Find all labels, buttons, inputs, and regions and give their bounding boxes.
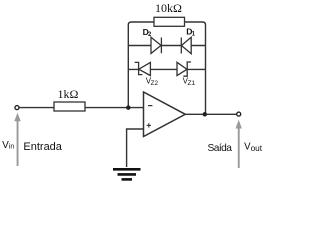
- svg-text:D1: D1: [186, 27, 195, 38]
- wire feedback loop left/top/right: [128, 22, 205, 114]
- svg-text:VZ2: VZ2: [146, 76, 159, 87]
- wire op-amp output: [185, 113, 237, 115]
- svg-text:10kΩ: 10kΩ: [155, 1, 182, 15]
- zener diode VZ1: [177, 62, 191, 76]
- svg-text:Saída: Saída: [208, 143, 233, 154]
- svg-text:Vout: Vout: [244, 141, 263, 153]
- wire zener row: [128, 68, 205, 70]
- input terminal: [15, 106, 19, 110]
- op-amp U1: [144, 92, 186, 137]
- svg-text:Entrada: Entrada: [23, 141, 62, 153]
- output arrow Vout: [236, 120, 242, 168]
- diode D2: [151, 37, 161, 53]
- wire diode row: [128, 45, 205, 47]
- wire main input horizontal: [19, 107, 144, 109]
- zener diode VZ2: [135, 62, 151, 75]
- ground: [113, 169, 141, 179]
- resistor R2 10kΩ: [154, 1, 185, 27]
- node junction output: [203, 112, 208, 117]
- output terminal: [237, 112, 241, 116]
- resistor R1 1kΩ: [54, 87, 85, 111]
- svg-text:1kΩ: 1kΩ: [58, 87, 79, 101]
- diode D1: [181, 37, 191, 53]
- wire non-inverting input to ground: [127, 129, 144, 167]
- svg-text:VZ1: VZ1: [183, 76, 196, 87]
- node junction inverting input: [126, 105, 131, 110]
- svg-text:D2: D2: [143, 27, 152, 38]
- svg-text:Vin: Vin: [2, 140, 14, 151]
- input arrow Vin: [14, 113, 20, 166]
